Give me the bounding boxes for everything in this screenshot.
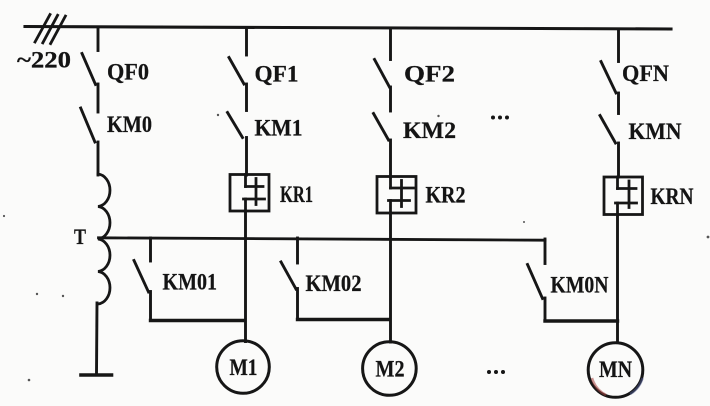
wire: KM01 branch drop — [149, 238, 152, 261]
svg-text:KR2: KR2 — [426, 183, 466, 208]
wire: between QFN and KMN — [617, 93, 620, 114]
wire: between QF1 and KM1 — [245, 84, 248, 111]
wire: KM2 to KR2 — [389, 140, 392, 177]
contactor contact KM0 blade — [81, 108, 95, 142]
wire: KMN to KRN — [617, 143, 620, 177]
contactor contact KM0N blade — [528, 265, 543, 299]
svg-text:KM0N: KM0N — [551, 273, 609, 298]
contactor contact KM2 blade — [374, 114, 389, 141]
wire: KRN to motor MN — [616, 215, 619, 343]
svg-text:KM1: KM1 — [255, 116, 303, 141]
transformer T winding — [98, 174, 110, 304]
ellipsis dots between QF2 and QFN branches — [491, 116, 509, 120]
wire: KR1 to motor M1 — [244, 211, 247, 342]
breaker QFN blade — [601, 62, 616, 94]
breaker QF1 blade — [229, 58, 244, 85]
svg-text:QF2: QF2 — [404, 62, 455, 87]
motor M1 circle — [217, 341, 270, 394]
svg-text:QF1: QF1 — [255, 62, 299, 87]
svg-text:M1: M1 — [230, 355, 258, 380]
colour scan fringe on MN circle — [592, 378, 643, 395]
wire: KM01 bottom connection to M1 line — [151, 319, 245, 322]
thermal relay KR2 box — [377, 177, 416, 214]
contactor contact KM01 blade — [134, 261, 149, 293]
svg-text:QF0: QF0 — [107, 60, 149, 85]
breaker QF2 blade — [375, 60, 390, 88]
wire: QF0 branch drop from bus — [97, 27, 100, 51]
svg-text:KM2: KM2 — [403, 118, 456, 143]
wire: QFN branch drop from bus — [617, 29, 620, 62]
motor M2 circle — [363, 342, 417, 396]
scan noise specks — [3, 114, 709, 382]
svg-text:KMN: KMN — [629, 119, 682, 144]
svg-text:~220: ~220 — [17, 48, 71, 73]
svg-text:KM01: KM01 — [163, 270, 218, 295]
wire: QF2 branch drop from bus — [389, 28, 392, 60]
wire: middle reduced-voltage bus from T tap — [99, 238, 546, 240]
svg-text:T: T — [74, 224, 86, 249]
wire: KM01 lower drop — [149, 292, 152, 321]
contactor contact KMN blade — [600, 116, 616, 144]
wire: KR2 to motor M2 — [389, 213, 392, 342]
svg-text:MN: MN — [599, 357, 632, 382]
hatch marks on supply bus — [35, 15, 65, 44]
wire: KM0N lower drop — [544, 298, 547, 321]
svg-text:KRN: KRN — [651, 184, 694, 209]
wire: KM1 to KR1 — [245, 138, 248, 176]
wire: KM0N bottom connection to MN line — [545, 319, 618, 322]
breaker QF0 blade — [82, 54, 96, 85]
wire: KM0 to transformer — [97, 142, 100, 175]
svg-text:KR1: KR1 — [280, 182, 313, 207]
thermal relay KRN box — [604, 177, 643, 215]
svg-text:KM0: KM0 — [107, 112, 152, 137]
wire: top supply bus — [25, 27, 671, 30]
wire: KM02 lower drop — [296, 289, 299, 320]
thermal relay KR1 box — [230, 175, 269, 212]
wire: KM02 bottom connection to M2 line — [298, 318, 390, 321]
contactor contact KM02 blade — [281, 262, 296, 289]
ground bar — [81, 373, 112, 377]
wire: between QF2 and KM2 — [389, 87, 392, 111]
wire: QF1 branch drop from bus — [245, 28, 248, 56]
wire: between QF0 and KM0 — [97, 84, 100, 112]
motor MN circle — [588, 343, 643, 398]
svg-text:KM02: KM02 — [306, 271, 362, 296]
svg-text:QFN: QFN — [622, 61, 669, 86]
wire: KM02 branch drop — [296, 238, 299, 263]
wire: transformer to ground — [95, 303, 98, 374]
svg-text:M2: M2 — [376, 357, 405, 382]
wire: KM0N branch, bus turns down — [544, 239, 547, 264]
ellipsis dots between M2 and MN — [487, 370, 505, 374]
contactor contact KM1 blade — [228, 113, 243, 138]
